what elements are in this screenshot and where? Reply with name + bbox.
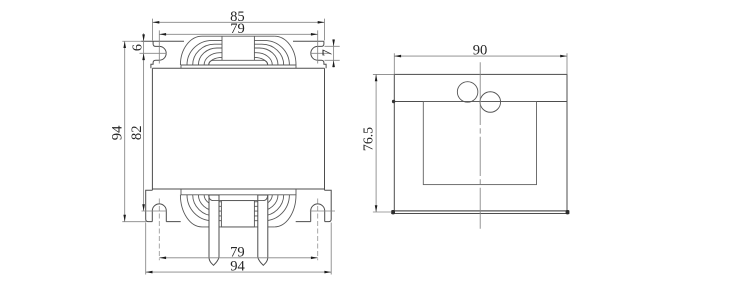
arrows dim 94 bottom <box>146 271 153 274</box>
lead hole circle left <box>457 82 478 103</box>
centreline notch bottom-right <box>310 199 335 261</box>
arrows dim 85 <box>153 21 160 24</box>
extension lines dim 90 <box>394 53 567 74</box>
arrows dim 79 top <box>159 33 166 36</box>
dim line 79 bottom <box>159 257 317 259</box>
bobbin block bottom <box>221 201 254 227</box>
terminal pin left <box>209 195 219 265</box>
winding arcs top-left <box>180 36 274 65</box>
svg-text:94: 94 <box>109 125 125 140</box>
flange top edge line <box>141 40 324 42</box>
winding base strip top <box>181 65 296 68</box>
mounting slot top-left <box>151 41 166 68</box>
centreline notch bottom-left <box>142 199 168 261</box>
svg-text:6: 6 <box>131 44 146 51</box>
mounting notch bottom-right <box>311 204 325 222</box>
bottom flange left outline <box>146 190 332 221</box>
side cover box <box>394 74 567 211</box>
arrows dim 94 left <box>123 41 126 48</box>
base plate end foot left <box>391 210 395 214</box>
svg-text:82: 82 <box>129 126 145 141</box>
lead hole circle right <box>480 92 501 113</box>
svg-text:94: 94 <box>230 259 245 275</box>
svg-text:7: 7 <box>321 49 336 56</box>
winding arcs bottom-left <box>180 195 274 227</box>
flange lip line <box>394 101 567 103</box>
arrows dim 7 <box>332 40 335 47</box>
centre mark slot top-left <box>140 52 167 54</box>
winding arcs top-right <box>254 36 296 65</box>
winding pedestal top <box>209 60 268 65</box>
svg-text:90: 90 <box>473 43 488 59</box>
dim line 85 <box>153 21 325 23</box>
centre mark slot top-right <box>311 52 330 54</box>
extension lines dim 7 <box>325 46 340 60</box>
base plate end foot right <box>566 210 570 214</box>
mounting slot top-right <box>311 41 326 68</box>
dim line 94 bottom <box>146 271 332 273</box>
vertical centreline <box>479 62 481 229</box>
extension lines dim 94 bottom <box>146 223 332 275</box>
terminal pin right <box>258 195 268 265</box>
lip end dot <box>392 100 395 103</box>
inner core rectangle <box>423 102 536 185</box>
extension lines dim 85 <box>153 19 325 41</box>
extension lines dim 79 top <box>159 30 317 63</box>
bobbin block top <box>222 36 254 60</box>
dim line 6 and 82 shared <box>143 33 145 211</box>
arrows dim 90 <box>394 55 401 58</box>
dim line 7 <box>333 39 335 67</box>
arrows dim 76.5 <box>375 74 378 81</box>
body outline <box>152 68 324 190</box>
svg-text:76.5: 76.5 <box>360 127 375 151</box>
arrows dim 6 <box>142 34 145 41</box>
dim line 76.5 <box>375 74 377 212</box>
dim line 94 left <box>122 41 146 222</box>
winding pedestal bottom <box>209 195 268 201</box>
dim line 90 <box>394 55 567 57</box>
mounting notch bottom-left <box>152 204 166 222</box>
svg-text:79: 79 <box>230 21 245 37</box>
arrows dim 79 bottom <box>159 257 166 260</box>
base plate <box>391 211 569 214</box>
winding arcs bottom-right <box>254 195 296 227</box>
extension lines dim 76.5 <box>373 74 394 212</box>
dim line 79 top <box>159 33 317 35</box>
winding base strip bottom <box>181 189 296 195</box>
arrow dim 82 bottom <box>142 204 145 211</box>
